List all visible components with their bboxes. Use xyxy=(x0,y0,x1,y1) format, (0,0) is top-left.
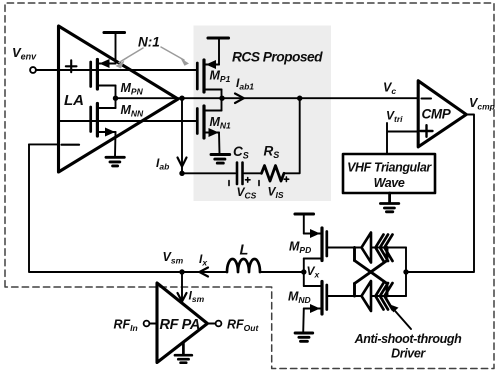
wire Vtri input xyxy=(387,123,418,155)
node driver input xyxy=(403,269,408,274)
ground of VHF box xyxy=(380,193,398,212)
transistor MND xyxy=(303,272,327,332)
ground of MNN xyxy=(106,157,124,166)
VHF triangular wave generator box xyxy=(343,154,435,193)
svg-text:Vsm: Vsm xyxy=(163,250,184,266)
current arrow Iab xyxy=(178,158,187,167)
driver lower buffer triangle xyxy=(362,281,372,311)
transistor MNN xyxy=(91,98,116,156)
wire MPD gate to driver upper output xyxy=(328,247,406,249)
anti-shoot-through driver upper cell outline xyxy=(355,248,388,261)
node Iab junction xyxy=(179,171,184,176)
wire RFout xyxy=(207,323,215,325)
capacitor CS xyxy=(237,163,243,185)
svg-text:Ix: Ix xyxy=(199,252,208,268)
svg-text:LA: LA xyxy=(64,92,84,109)
node Vx xyxy=(301,269,306,274)
wire RS up to drain wire xyxy=(284,98,300,173)
svg-text:Wave: Wave xyxy=(374,176,405,190)
svg-text:Venv: Venv xyxy=(12,45,37,62)
plus marker LA noninverting input xyxy=(66,60,77,72)
resistor RS xyxy=(262,166,285,181)
wire driver input side xyxy=(405,248,407,297)
current arrow Ix xyxy=(200,268,209,277)
svg-text:Vtri: Vtri xyxy=(386,109,403,125)
svg-text:RFOut: RFOut xyxy=(227,318,259,334)
wire Iab node to CS xyxy=(182,172,235,174)
svg-text:Vcmp: Vcmp xyxy=(469,96,495,112)
driver lower buffer chevrons xyxy=(376,283,393,310)
ground of MND xyxy=(295,333,313,341)
VDD supply of MPD xyxy=(295,214,314,234)
svg-text:MNN: MNN xyxy=(121,103,145,119)
node feedback tap xyxy=(179,96,184,101)
svg-text:Anti-shoot-through: Anti-shoot-through xyxy=(354,332,462,346)
current arrow Iab1 xyxy=(235,94,244,104)
svg-text:Ism: Ism xyxy=(189,289,205,305)
current arrow Ism xyxy=(178,293,187,302)
driver upper buffer chevrons xyxy=(376,235,393,262)
wire MND gate to driver lower output xyxy=(328,295,406,297)
wire shared gate line MNN to MN1 xyxy=(59,120,197,122)
comparator CMP body xyxy=(418,81,466,147)
node LA output xyxy=(113,96,118,101)
transistor MN1 xyxy=(197,98,221,154)
VDD supply of MP1 xyxy=(208,38,229,65)
polarity marks VIS xyxy=(259,177,289,186)
ground of RF PA xyxy=(175,343,192,363)
driver cross-coupling X wires xyxy=(355,261,388,284)
transistor MPD xyxy=(304,228,327,272)
anti-shoot-through driver lower cell outline xyxy=(355,284,388,297)
wire RFin xyxy=(149,323,157,325)
svg-text:Iab: Iab xyxy=(156,156,169,172)
svg-text:RCS Proposed: RCS Proposed xyxy=(232,50,323,65)
wire LA inverting input xyxy=(29,143,58,145)
annotation N:1 arrow to MPN xyxy=(116,48,144,69)
svg-text:MND: MND xyxy=(288,290,311,306)
input terminal Venv xyxy=(30,67,36,73)
wire Ism from Vsm to RF PA xyxy=(181,272,183,302)
wire feedback Vsm to LA inverting input xyxy=(29,144,182,272)
annotation arrow to driver xyxy=(389,304,411,329)
svg-text:RFIn: RFIn xyxy=(114,318,138,334)
svg-text:MPN: MPN xyxy=(121,81,144,97)
output terminal RFout xyxy=(216,321,222,327)
svg-text:CMP: CMP xyxy=(422,107,452,122)
VDD supply of MPN xyxy=(104,33,125,64)
transistor MPN xyxy=(91,59,116,98)
plus marker CMP xyxy=(421,125,433,137)
svg-text:Vx: Vx xyxy=(307,264,321,280)
svg-text:RF PA: RF PA xyxy=(160,317,200,333)
node RS branch xyxy=(297,96,302,101)
op-amp LA body xyxy=(59,26,179,172)
RCS Proposed shaded region xyxy=(194,26,332,202)
wire inductor to Vx xyxy=(260,271,304,273)
svg-text:Driver: Driver xyxy=(391,347,426,361)
input terminal RFin xyxy=(144,321,150,327)
minus marker CMP xyxy=(422,97,432,99)
wire drain node to CMP Vc input xyxy=(222,97,418,99)
wire CS to RS xyxy=(244,172,261,174)
svg-text:MPD: MPD xyxy=(289,240,311,256)
svg-text:Vc: Vc xyxy=(383,81,396,97)
wire feedback tap down to Iab node xyxy=(181,98,183,173)
svg-text:L: L xyxy=(240,243,249,259)
node Vsm xyxy=(179,269,184,274)
annotation N:1 arrow to MP1 xyxy=(161,47,189,66)
wire Vsm to inductor xyxy=(182,271,227,273)
wire CMP output down to driver xyxy=(406,115,474,273)
ground of MN1 xyxy=(211,155,230,164)
RF PA amplifier body xyxy=(157,283,207,363)
node MP1 MN1 drains xyxy=(219,96,224,101)
transistor MP1 xyxy=(197,60,221,98)
minus marker LA inverting input xyxy=(62,144,80,146)
polarity marks VCS xyxy=(229,178,250,186)
wire Venv to LA and shared gate line to MP1 xyxy=(36,69,197,71)
inductor L xyxy=(227,259,260,272)
wire LA output to drain node xyxy=(116,97,223,99)
svg-text:N:1: N:1 xyxy=(138,35,160,50)
driver upper buffer triangle xyxy=(362,233,372,263)
svg-text:VHF Triangular: VHF Triangular xyxy=(347,161,432,175)
